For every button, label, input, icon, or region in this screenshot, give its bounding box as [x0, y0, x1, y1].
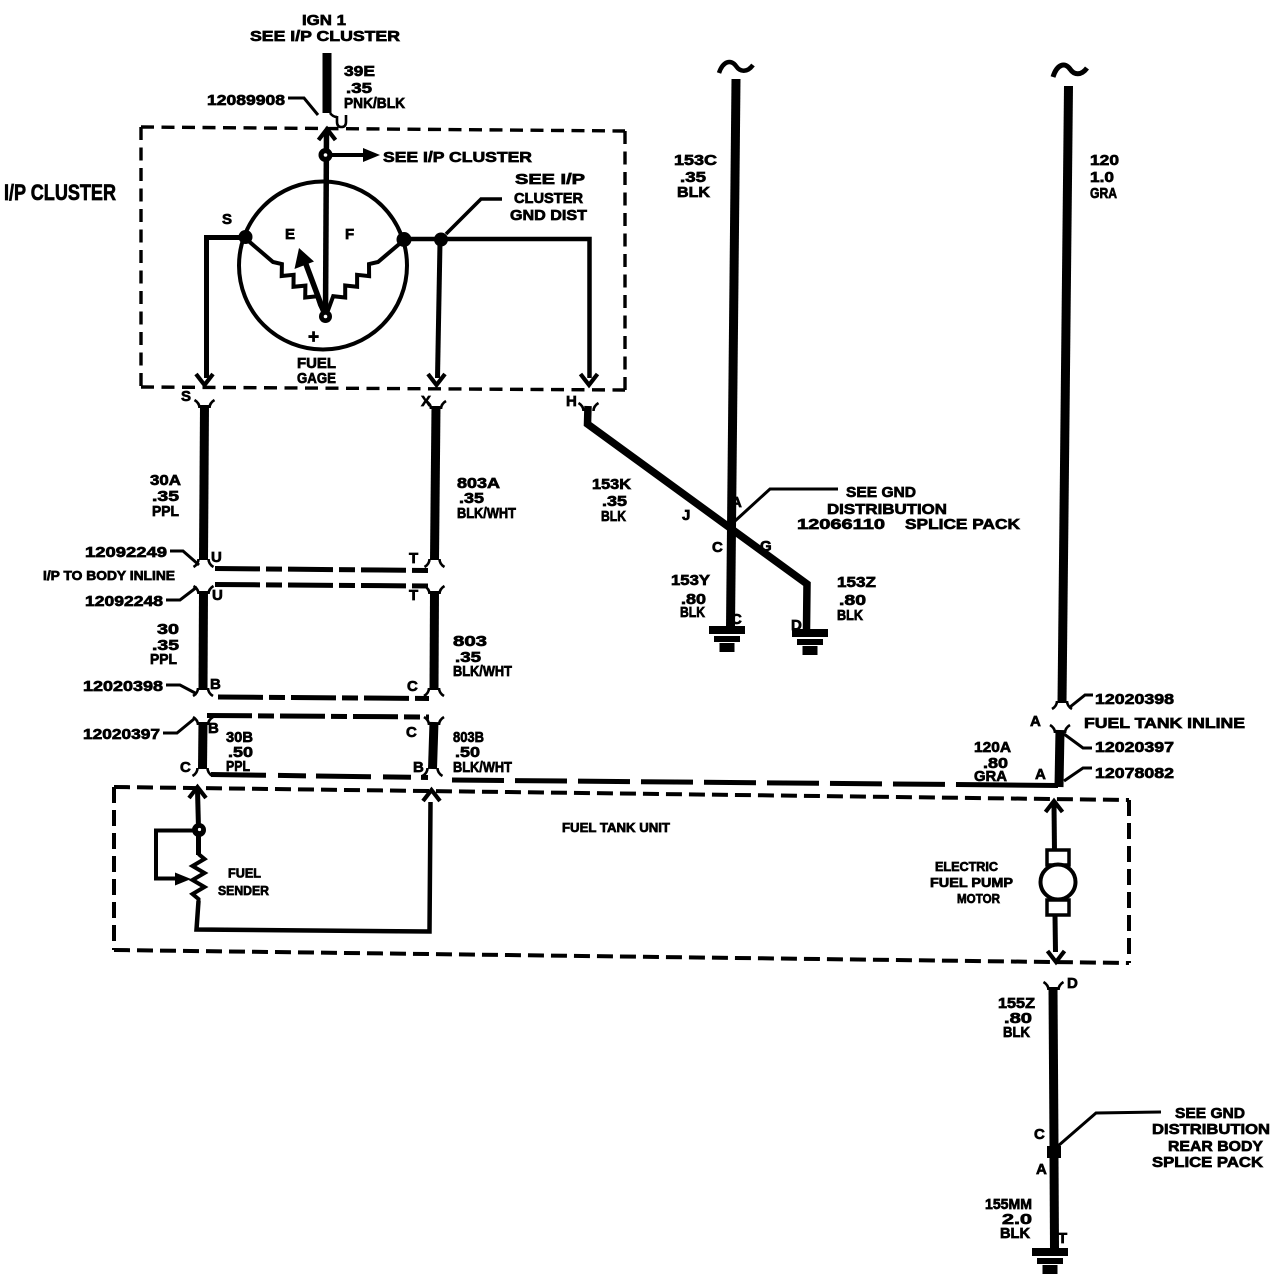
- inline connector dashed line U-T: [215, 569, 429, 571]
- label 30 .35 PPL: [150, 621, 179, 668]
- svg-text:MOTOR: MOTOR: [957, 891, 1001, 906]
- svg-text:BLK: BLK: [1003, 1024, 1030, 1041]
- terminal F-side dot: [397, 232, 412, 247]
- svg-text:BLK/WHT: BLK/WHT: [457, 505, 516, 522]
- svg-text:C: C: [731, 611, 742, 628]
- arrow SEE I/P CLUSTER: [332, 153, 364, 157]
- svg-text:I/P CLUSTER: I/P CLUSTER: [4, 180, 116, 205]
- connector flare top of wire 30A: [195, 400, 215, 408]
- flare top wire 30: [194, 586, 214, 594]
- svg-text:E: E: [285, 226, 295, 243]
- connector flare H: [579, 403, 599, 411]
- svg-text:12092248: 12092248: [85, 593, 163, 610]
- ground 153Y: [709, 626, 745, 652]
- fuel sender wiper arrowhead: [175, 873, 191, 886]
- svg-text:A: A: [1030, 713, 1041, 730]
- fuel gage G1 circle: [239, 182, 407, 350]
- label 30B .50 PPL: [226, 729, 253, 775]
- svg-text:120A: 120A: [974, 739, 1011, 756]
- svg-text:FUEL: FUEL: [228, 866, 261, 881]
- connector 12020397 pointer: [163, 719, 194, 733]
- svg-text:BLK/WHT: BLK/WHT: [453, 759, 512, 776]
- flare bottom wire 803A: [425, 559, 445, 567]
- wire 153C squiggle top: [719, 62, 753, 73]
- svg-text:CLUSTER: CLUSTER: [514, 190, 583, 207]
- gauge coil left winding: [245, 238, 324, 313]
- wire 30 thick: [199, 591, 209, 690]
- fuel sender wiper loop: [156, 831, 195, 879]
- inline connector dashed line C-B bottom: [211, 775, 428, 778]
- wire 155Z thick: [1053, 987, 1054, 1146]
- svg-text:153K: 153K: [592, 476, 631, 493]
- svg-text:S: S: [222, 211, 232, 228]
- flare bottom wire 803: [424, 688, 444, 696]
- node junction dot: [319, 148, 333, 162]
- arrow H leg at box bottom: [581, 374, 598, 385]
- wire 120A long-dash horizontal: [452, 780, 1008, 785]
- wire from box top to gauge pivot: [326, 131, 327, 316]
- svg-text:A: A: [731, 494, 742, 511]
- svg-text:T: T: [409, 587, 418, 604]
- gauge coil right winding: [327, 240, 404, 313]
- connector 12020397 pointer: [1064, 734, 1092, 748]
- node sender junction dot: [192, 823, 206, 837]
- inline connector dashed line B-C: [218, 697, 429, 699]
- label SEE I/P CLUSTER GND DIST: [510, 171, 587, 224]
- wire 120A vertical stub: [1059, 730, 1060, 787]
- svg-text:PPL: PPL: [152, 503, 179, 520]
- svg-text:C: C: [407, 678, 418, 695]
- wire pump to box bottom: [1053, 915, 1059, 952]
- inline connector dashed line U-T lower: [215, 585, 429, 587]
- svg-text:153Z: 153Z: [837, 574, 876, 591]
- svg-text:12020398: 12020398: [83, 678, 163, 695]
- svg-text:S: S: [181, 388, 191, 405]
- arrow S leg at box bottom: [196, 374, 213, 385]
- ground 155MM rear body: [1032, 1248, 1068, 1274]
- label 120 1.0 GRA: [1090, 152, 1119, 202]
- label 39E .35 PNK/BLK: [344, 63, 405, 112]
- svg-text:SEE GND: SEE GND: [846, 484, 916, 501]
- svg-text:B: B: [210, 676, 221, 693]
- connector flare 155Z top: [1044, 982, 1064, 990]
- wire 120 vertical: [1062, 86, 1069, 703]
- svg-text:H: H: [566, 393, 577, 410]
- arrow pump feed into tank unit: [1046, 801, 1063, 812]
- wire 803B thick: [433, 722, 435, 769]
- svg-text:C: C: [406, 724, 417, 741]
- svg-text:BLK: BLK: [601, 508, 626, 525]
- arrow into tank unit (sender C): [189, 787, 206, 798]
- svg-text:12066110: 12066110: [797, 516, 885, 533]
- wire 30B thick: [198, 722, 208, 769]
- label 803B .50 BLK/WHT: [453, 729, 512, 776]
- svg-text:G: G: [760, 538, 772, 555]
- wire to sender junction: [198, 790, 199, 828]
- splice block C/A: [1047, 1146, 1061, 1158]
- arrow sender B leg up: [423, 790, 440, 801]
- gauge needle: [306, 263, 326, 315]
- svg-text:FUEL PUMP: FUEL PUMP: [930, 875, 1013, 890]
- svg-text:T: T: [1058, 1230, 1067, 1247]
- connector 12089908 pointer line: [288, 98, 318, 115]
- connector 12092248 pointer: [166, 587, 197, 600]
- ground 153Z: [792, 629, 828, 655]
- flare bottom wire 30: [193, 688, 213, 696]
- svg-text:PNK/BLK: PNK/BLK: [344, 95, 405, 112]
- terminal S dot: [239, 230, 253, 244]
- svg-text:SEE I/P CLUSTER: SEE I/P CLUSTER: [383, 149, 532, 166]
- label 30A .35 PPL: [150, 472, 181, 520]
- flare top wire 30B: [193, 717, 213, 725]
- gauge pivot: [319, 310, 332, 323]
- svg-text:BLK: BLK: [1000, 1225, 1030, 1242]
- wire 153C vertical: [731, 79, 737, 627]
- svg-text:SPLICE PACK: SPLICE PACK: [1152, 1154, 1263, 1171]
- flare bottom of wire 30A: [194, 559, 214, 567]
- electric fuel pump motor M1: [1041, 850, 1076, 915]
- arrow X leg at box bottom: [428, 374, 445, 385]
- svg-text:12078082: 12078082: [1095, 765, 1174, 782]
- wire 120 squiggle top: [1053, 65, 1087, 77]
- svg-text:BLK: BLK: [680, 604, 705, 621]
- svg-text:SEE GND: SEE GND: [1175, 1105, 1245, 1122]
- label FUEL SENDER: [218, 866, 270, 899]
- connector 12089908 terminal hook at wire end: [330, 113, 346, 127]
- flare bottom wire 30B: [193, 768, 213, 776]
- svg-text:12020397: 12020397: [1095, 739, 1174, 756]
- svg-text:J: J: [682, 507, 690, 524]
- svg-text:153C: 153C: [674, 152, 717, 169]
- svg-text:REAR BODY: REAR BODY: [1168, 1138, 1263, 1155]
- connector 12020398 pointer: [166, 685, 197, 694]
- connector 12092249 pointer: [170, 551, 199, 565]
- svg-text:12020398: 12020398: [1095, 691, 1174, 708]
- label 153K .35 BLK: [592, 476, 631, 525]
- label 155Z .80 BLK: [998, 995, 1035, 1041]
- svg-text:BLK/WHT: BLK/WHT: [453, 663, 512, 680]
- svg-text:SENDER: SENDER: [218, 883, 270, 898]
- svg-text:U: U: [212, 587, 223, 604]
- label 155MM 2.0 BLK: [985, 1196, 1032, 1242]
- svg-text:SEE I/P CLUSTER: SEE I/P CLUSTER: [250, 28, 400, 45]
- svg-text:+: +: [308, 327, 319, 348]
- svg-text:A: A: [1036, 1161, 1047, 1178]
- connector 12020398 pointer: [1070, 695, 1093, 707]
- svg-text:30: 30: [157, 621, 179, 638]
- svg-text:120: 120: [1090, 152, 1119, 169]
- pointer to rear body splice label: [1058, 1112, 1161, 1146]
- wire S terminal to left leg: [207, 238, 246, 379]
- flare top wire 803B: [424, 717, 444, 725]
- svg-text:12092249: 12092249: [85, 544, 167, 561]
- svg-text:GND DIST: GND DIST: [510, 207, 587, 224]
- arrow into cluster at box top: [319, 129, 336, 140]
- svg-text:153Y: 153Y: [671, 572, 710, 589]
- FUEL TANK UNIT dashed box: [114, 787, 1129, 963]
- connector 12020398 flare (fuel tank inline upper): [1052, 701, 1072, 709]
- svg-text:U: U: [211, 549, 222, 566]
- wire 155MM thick: [1050, 1158, 1060, 1249]
- inline connector dashed line B-C lower: [207, 716, 429, 718]
- label 803 .35 BLK/WHT: [453, 633, 512, 680]
- svg-text:12020397: 12020397: [83, 726, 160, 743]
- label 153Y .80 BLK: [671, 572, 710, 621]
- svg-text:DISTRIBUTION: DISTRIBUTION: [1152, 1121, 1270, 1138]
- svg-text:F: F: [345, 226, 354, 243]
- connector flare top of wire 803A: [426, 401, 446, 409]
- node dot right of gauge: [434, 233, 448, 247]
- flare top wire 803: [425, 586, 445, 594]
- label SEE GND DISTRIBUTION 12066110 SPLICE PACK: [797, 484, 1020, 533]
- svg-text:30A: 30A: [150, 472, 181, 489]
- fuel sender resistor zigzag: [193, 854, 205, 903]
- svg-text:GAGE: GAGE: [297, 370, 336, 387]
- pointer to splice pack label: [735, 489, 838, 521]
- svg-text:IGN 1: IGN 1: [302, 12, 346, 29]
- svg-text:12089908: 12089908: [207, 92, 285, 109]
- svg-text:39E: 39E: [344, 63, 375, 80]
- wire X leg: [438, 242, 441, 378]
- connector 12078082 pointer: [1064, 768, 1092, 781]
- svg-text:GRA: GRA: [974, 768, 1007, 785]
- arrow pump ground out of box: [1048, 951, 1065, 962]
- svg-text:A: A: [1035, 766, 1046, 783]
- svg-text:I/P TO BODY INLINE: I/P TO BODY INLINE: [43, 568, 175, 583]
- svg-text:D: D: [1067, 975, 1078, 992]
- svg-text:T: T: [409, 550, 418, 567]
- svg-text:BLK: BLK: [677, 184, 710, 201]
- svg-text:FUEL TANK UNIT: FUEL TANK UNIT: [562, 820, 670, 835]
- pointer to gnd dist label: [446, 199, 502, 234]
- label FUEL GAGE: [297, 355, 336, 387]
- svg-text:C: C: [180, 759, 191, 776]
- wire 803A thick: [435, 406, 437, 560]
- connector 12020397 flare (lower half): [1050, 725, 1070, 733]
- wire F dot to right leg: [404, 239, 590, 378]
- label SEE GND DISTRIBUTION REAR BODY SPLICE PACK: [1152, 1105, 1270, 1171]
- label 120A .80 GRA: [974, 739, 1011, 785]
- I/P CLUSTER dashed box: [141, 127, 625, 390]
- flare bottom wire 803B: [423, 768, 443, 776]
- svg-text:GRA: GRA: [1090, 185, 1117, 202]
- svg-text:1.0: 1.0: [1090, 169, 1114, 186]
- wire 153K from H to ground 153Z: [588, 406, 808, 629]
- wire 803 thick: [430, 591, 440, 690]
- svg-text:C: C: [1034, 1126, 1045, 1143]
- svg-text:FUEL TANK INLINE: FUEL TANK INLINE: [1084, 715, 1245, 732]
- label 153C .35 BLK: [674, 152, 717, 201]
- label ELECTRIC FUEL PUMP MOTOR: [930, 859, 1013, 906]
- label 803A .35 BLK/WHT: [457, 475, 516, 522]
- svg-text:803: 803: [453, 633, 487, 650]
- label 153Z .80 BLK: [837, 574, 876, 624]
- svg-text:BLK: BLK: [837, 607, 863, 624]
- svg-text:C: C: [712, 539, 723, 556]
- svg-text:SPLICE PACK: SPLICE PACK: [905, 516, 1020, 533]
- svg-text:PPL: PPL: [150, 651, 177, 668]
- wire 39E thick vertical: [323, 53, 332, 113]
- svg-text:ELECTRIC: ELECTRIC: [935, 859, 999, 874]
- wire sender bottom run to B leg: [197, 802, 431, 932]
- wire 30A thick: [204, 405, 205, 560]
- wire junction to resistor: [196, 833, 201, 855]
- wire to pump motor: [1052, 804, 1058, 852]
- svg-text:B: B: [413, 759, 424, 776]
- svg-text:SEE I/P: SEE I/P: [515, 171, 585, 188]
